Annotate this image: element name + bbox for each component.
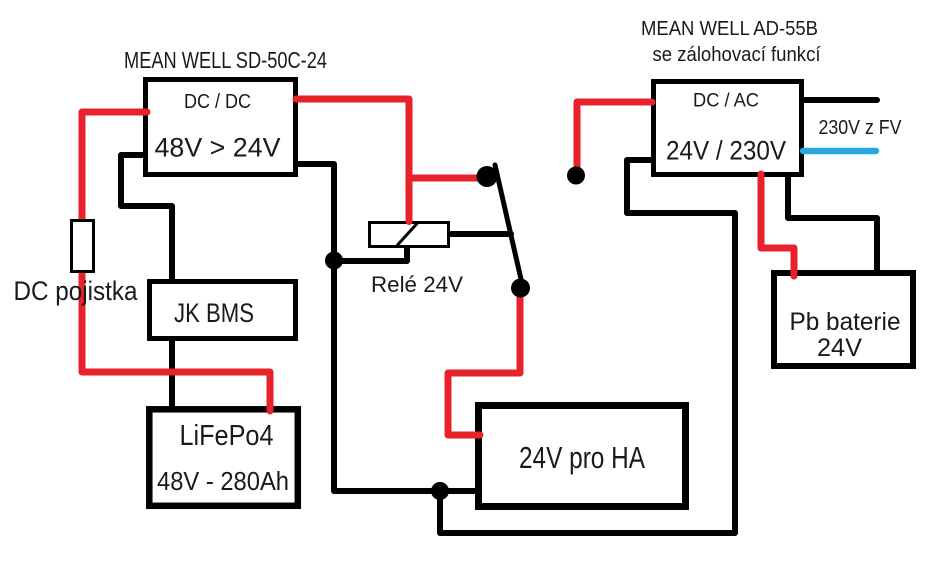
svg-text:24V / 230V: 24V / 230V: [666, 136, 786, 166]
svg-text:LiFePo4: LiFePo4: [180, 420, 274, 452]
svg-text:MEAN WELL AD-55B: MEAN WELL AD-55B: [641, 18, 818, 40]
svg-text:DC pojistka: DC pojistka: [14, 276, 139, 306]
svg-text:DC / DC: DC / DC: [184, 90, 251, 113]
svg-text:24V pro HA: 24V pro HA: [519, 440, 645, 475]
svg-text:24V: 24V: [817, 335, 863, 362]
svg-text:DC / AC: DC / AC: [693, 91, 759, 112]
svg-text:Pb baterie: Pb baterie: [790, 309, 901, 336]
svg-text:se zálohovací funkcí: se zálohovací funkcí: [653, 44, 821, 66]
svg-text:48V - 280Ah: 48V - 280Ah: [157, 468, 289, 496]
svg-text:230V z FV: 230V z FV: [819, 117, 903, 139]
svg-text:48V > 24V: 48V > 24V: [155, 133, 281, 163]
svg-text:JK BMS: JK BMS: [174, 298, 254, 328]
svg-text:Relé 24V: Relé 24V: [371, 272, 463, 297]
svg-text:MEAN WELL SD-50C-24: MEAN WELL SD-50C-24: [124, 47, 327, 73]
